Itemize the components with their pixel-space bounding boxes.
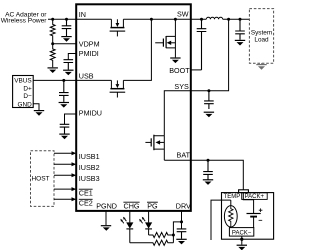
pin labels bottom [96,201,191,210]
svg-text:PMIDI: PMIDI [79,49,99,58]
wire: DRV [181,211,183,229]
wire: VDPM [53,43,76,45]
capacitor C_PMIDU [60,124,70,133]
svg-text:IUSB2: IUSB2 [79,163,100,172]
wire: CE2 with arrow [54,198,72,200]
capacitor C_SYS [204,91,214,109]
svg-text:SYS: SYS [174,82,189,91]
svg-text:IUSB3: IUSB3 [79,174,100,183]
svg-text:BOOT: BOOT [169,66,190,75]
wire: PMIDI stub [68,54,76,60]
battery pack box [222,193,274,240]
System Load box (dashed) [249,9,273,64]
wire: SYS internal to BAT FET [164,91,191,136]
wire: BAT internal [164,159,191,161]
pin labels right side [169,10,190,160]
svg-text:TEMP: TEMP [224,194,241,200]
wire: internal USB rail [76,19,151,80]
svg-text:VBUS: VBUS [14,78,31,85]
wire: BOOT pin [191,69,202,71]
overline CE1 [79,188,93,190]
transistor Q1 (IN FET) [110,19,126,36]
svg-text:CE2: CE2 [79,199,93,208]
resistor R1 (VDPM divider top) [50,19,55,43]
HOST box (dashed) [31,151,55,207]
pin labels left side [79,10,102,207]
battery B1 [247,208,263,227]
node: USB junction [62,79,65,82]
wire: SYS riser [191,19,229,90]
svg-text:PG: PG [147,201,158,210]
wire: VBUS to USB pin [33,79,76,81]
node: PACK- junction [240,238,243,241]
svg-text:BAT: BAT [177,151,191,160]
PACK+ terminal tab [239,190,249,193]
svg-text:PMIDU: PMIDU [79,109,102,118]
node: SYS riser junction [227,18,230,21]
node: SYS cap junction [207,89,210,92]
wire: rail branch [173,222,181,243]
wire: PACK- to ground [241,236,243,245]
capacitor C_IN [62,19,72,36]
svg-text:D−: D− [23,93,32,100]
ground (below C_USB) [59,103,69,108]
capacitor C_USB [59,80,69,102]
ground (below C_BAT) [203,180,213,185]
wire: input to IN pin [48,18,76,20]
svg-text:SW: SW [177,10,189,19]
svg-text:HOST: HOST [31,175,49,182]
wire: IUSB1 with arrow [54,152,72,154]
node: boot cap junction [200,18,203,21]
resistor R4 (CHG rail) [130,240,174,245]
svg-text:PGND: PGND [96,201,117,210]
USB connector box [13,76,34,108]
node: DRV cap junction [180,220,183,223]
node: input junction 2 [65,18,68,21]
PACK- terminal box [229,228,253,237]
svg-text:Load: Load [254,36,269,43]
LED D1 (CHG) [120,211,133,243]
svg-text:USB: USB [79,72,94,81]
ground (below C_DRV) [176,239,186,244]
node: rail junction [172,234,175,237]
wire: PMIDU stub [65,114,77,124]
svg-text:D+: D+ [23,86,32,93]
wire: IUSB2 with arrow [54,163,72,165]
wire: internal top rail IN to SW [76,18,191,20]
ground (battery pack) [237,245,247,250]
wire: PGND [105,211,107,225]
ground (below C_PMIDU) [59,134,69,139]
wire: CE1 with arrow [54,188,72,190]
capacitor C_BOOT [197,19,207,70]
ground (below C_OUT) [235,40,245,45]
svg-text:System: System [251,29,272,36]
node: VDPM junction [51,42,54,45]
ground (PGND) [101,226,111,231]
node: input junction 1 [51,18,54,21]
wire: SW to inductor [191,18,250,20]
node: top rail / USB riser junction [150,18,153,21]
wire: connector GND stub [33,104,39,110]
resistor R2 (VDPM divider bottom) [50,44,55,68]
resistor R3 (PG rail) [149,232,174,237]
overline CHG [123,201,139,203]
ground (below R2) [48,68,58,73]
svg-text:IUSB1: IUSB1 [79,152,100,161]
label: AC Adapter or Wireless Power [1,11,48,24]
ground (below C_SYS) [204,112,214,117]
svg-text:DRV: DRV [176,201,191,210]
ground (below C_PMIDI) [63,70,73,75]
svg-text:Wireless Power: Wireless Power [1,18,48,25]
ground (below C_IN) [61,37,71,42]
ground (System Load) [256,63,266,70]
ground (sync FET source) [170,58,180,63]
wire: BAT to pack [191,160,243,190]
capacitor C_BAT [203,161,213,180]
overline CE2 [79,198,93,200]
svg-text:CE1: CE1 [79,189,93,198]
wire: PACK+ to battery [243,193,253,214]
svg-text:PACK−: PACK− [232,230,252,236]
svg-text:IN: IN [79,10,86,19]
svg-text:VDPM: VDPM [79,39,100,48]
node: output cap junction [239,18,242,21]
overline PG [147,201,158,203]
thermistor RT [224,206,237,228]
wire: IUSB3 with arrow [54,174,72,176]
inductor L1 [206,17,222,19]
ground (connector GND) [34,111,44,116]
PACK+ label box [242,193,268,200]
svg-text:GND: GND [17,101,32,108]
wire: TEMP external [211,200,222,240]
capacitor C_OUT [235,19,245,40]
transistor Q2 (USB FET) [110,80,126,97]
node: top rail / sync FET junction [174,18,177,21]
IC U1 outline [76,4,191,211]
transistor Q3 (sync FET) [155,19,175,57]
capacitor C_PMIDI [64,60,74,70]
node: BAT cap junction [207,159,210,162]
transistor Q4 (BAT FET) [145,135,164,161]
svg-text:CHG: CHG [124,201,140,210]
LED D2 (PG) [139,211,152,235]
capacitor C_DRV [177,229,187,239]
wire: TEMP lead [230,200,232,206]
